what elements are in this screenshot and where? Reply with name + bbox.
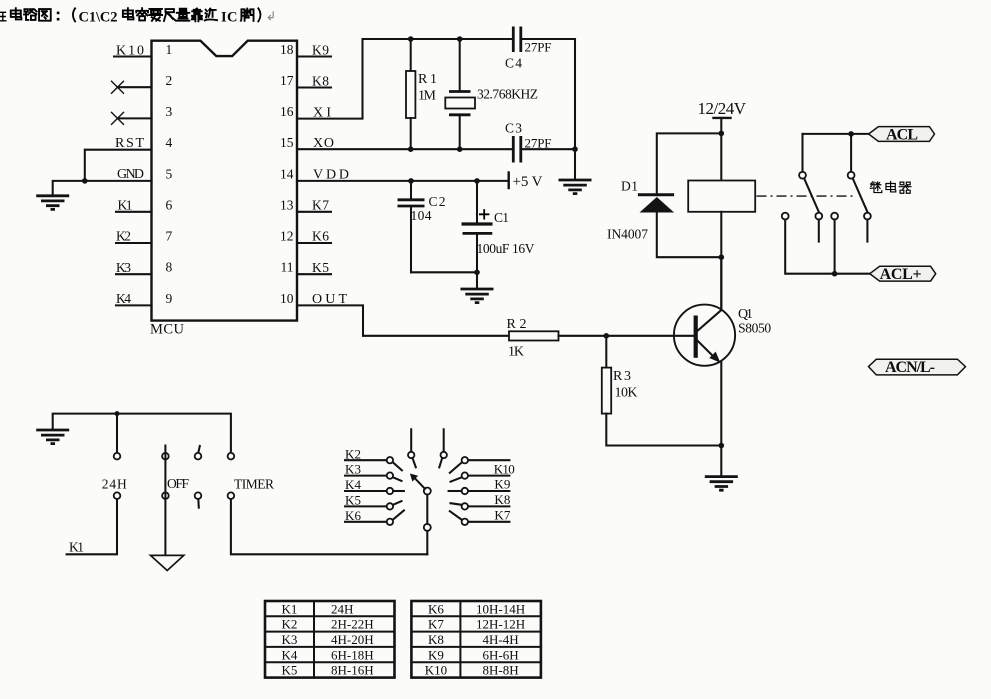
- wire to diode branch: [657, 133, 722, 194]
- svg-text:10H-14H: 10H-14H: [476, 601, 525, 616]
- svg-text:+5 V: +5 V: [513, 174, 543, 190]
- svg-text:K4: K4: [282, 647, 298, 662]
- ground (oscillator rail): [559, 180, 592, 194]
- svg-text:R3: R3: [613, 369, 631, 384]
- junction R1 bottom on XO wire: [408, 146, 414, 152]
- svg-text:K9: K9: [428, 647, 444, 662]
- svg-text:K10: K10: [116, 44, 144, 59]
- svg-text:9: 9: [166, 291, 173, 306]
- switch TIMER column: [228, 453, 428, 554]
- fullwidth close paren: [258, 8, 261, 23]
- switch OFF column (wiper into arrow): [162, 446, 169, 556]
- paragraph mark: [268, 11, 273, 20]
- contact arm right: [848, 134, 868, 212]
- svg-text:GND: GND: [117, 167, 144, 182]
- svg-text:K1: K1: [118, 198, 133, 213]
- junction 24H column: [115, 411, 120, 416]
- svg-text:5: 5: [166, 166, 173, 181]
- wire right rail of oscillator: [574, 39, 576, 180]
- svg-text:XO: XO: [313, 136, 334, 151]
- left contacts K2-K6: [345, 457, 402, 470]
- svg-text:K1: K1: [282, 601, 298, 616]
- svg-text:K6: K6: [345, 508, 362, 523]
- pin numbers right 18-10: [280, 42, 294, 306]
- switch 24H column: [67, 414, 121, 555]
- label 继电器: [870, 182, 911, 194]
- svg-text:16: 16: [280, 104, 294, 119]
- svg-text:18: 18: [280, 42, 294, 57]
- node K3 pin8 wire: [116, 273, 152, 275]
- node K8 pin17 wire: [297, 86, 331, 88]
- svg-text:K5: K5: [312, 260, 329, 275]
- bottom contact circles: [782, 213, 871, 220]
- svg-text:6H-18H: 6H-18H: [331, 647, 374, 662]
- svg-text:100uF 16V: 100uF 16V: [477, 241, 535, 256]
- wire to ground: [476, 272, 478, 289]
- svg-text:3: 3: [166, 104, 173, 119]
- svg-text:K10: K10: [494, 461, 515, 476]
- node K4 pin9 wire: [116, 304, 152, 306]
- fullwidth open paren: [73, 8, 76, 23]
- svg-text:C1: C1: [494, 210, 509, 225]
- table left K1-K5: [265, 601, 395, 678]
- ground (C1): [461, 289, 494, 303]
- svg-text:8: 8: [166, 260, 173, 275]
- wire C2 bottom to C1 bottom: [411, 271, 477, 273]
- wire collector: [720, 257, 722, 310]
- svg-text:C1\C2: C1\C2: [79, 9, 118, 25]
- svg-text:RST: RST: [115, 136, 144, 151]
- svg-text:4H-20H: 4H-20H: [331, 632, 374, 647]
- open arrow terminator: [151, 555, 184, 570]
- svg-text:S8050: S8050: [738, 321, 771, 336]
- node GND pin5 wire: [53, 181, 152, 196]
- wire ground rail: [53, 414, 231, 453]
- transistor Q1 S8050: [674, 305, 735, 366]
- svg-text:K10: K10: [425, 663, 447, 678]
- svg-text:ACL: ACL: [886, 126, 918, 143]
- svg-text:OFF: OFF: [167, 476, 189, 491]
- svg-text:K8: K8: [312, 74, 329, 89]
- capacitor C1 100uF 16V (electrolytic, + mark): [462, 181, 493, 272]
- svg-text:C3: C3: [505, 121, 522, 136]
- resistor R2 1K: [509, 331, 606, 340]
- svg-text:K7: K7: [494, 508, 511, 523]
- node K2 pin7 wire: [116, 242, 152, 244]
- node K1 pin6 wire: [116, 211, 152, 213]
- svg-text:OUT: OUT: [312, 292, 347, 307]
- svg-text:D1: D1: [621, 179, 638, 194]
- svg-text:K2: K2: [345, 446, 361, 461]
- svg-text:K8: K8: [494, 492, 510, 507]
- node K10 pin1 wire: [114, 55, 152, 57]
- wire top rail: [363, 38, 514, 40]
- svg-text:1M: 1M: [418, 89, 437, 104]
- svg-text:27PF: 27PF: [525, 136, 552, 151]
- dashed link relay to contacts: [757, 195, 857, 197]
- svg-text:11: 11: [281, 260, 294, 275]
- junction emitter/R3: [719, 443, 725, 449]
- svg-text:13: 13: [280, 197, 294, 212]
- pin2 wire with X (no connect): [111, 81, 152, 94]
- right contacts (top unlabeled, K10-K7): [450, 457, 510, 473]
- wire to ACL+: [785, 220, 870, 274]
- contact stubs: [818, 220, 820, 242]
- svg-text:K2: K2: [282, 617, 298, 632]
- junction R1 top: [408, 36, 414, 42]
- svg-text:12: 12: [280, 229, 294, 244]
- svg-text:C4: C4: [505, 56, 522, 71]
- svg-text:TIMER: TIMER: [234, 477, 274, 492]
- node K9 pin18 wire: [297, 55, 331, 57]
- wire emitter down: [720, 362, 722, 477]
- svg-text:12/24V: 12/24V: [698, 99, 747, 118]
- node OUT pin10 wire: [297, 305, 509, 335]
- table right K6-K10: [411, 601, 541, 678]
- junction ACL+ wire: [832, 271, 838, 277]
- svg-text:2H-22H: 2H-22H: [331, 617, 374, 632]
- svg-text:10K: 10K: [615, 386, 638, 401]
- svg-text:24H: 24H: [102, 477, 127, 492]
- svg-text:8H-8H: 8H-8H: [483, 663, 519, 678]
- diode D1 IN4007 (cathode bar + triangle): [638, 195, 721, 258]
- svg-text:K3: K3: [282, 632, 298, 647]
- op-amp? no: MCU body outline with notch: [152, 41, 298, 321]
- svg-text:K7: K7: [428, 617, 444, 632]
- contact arm left: [799, 134, 819, 212]
- node K5 pin11 wire: [297, 273, 331, 275]
- wire ACL rail: [803, 133, 869, 135]
- title CJK: 电路图: [11, 8, 51, 21]
- resistor R3 10K: [602, 336, 722, 446]
- svg-text:10: 10: [280, 291, 294, 306]
- pin3 wire with X (no connect): [111, 112, 152, 125]
- fullwidth colon: [57, 12, 60, 21]
- junction RST/GND: [82, 178, 88, 184]
- svg-text:K1: K1: [69, 540, 84, 555]
- svg-text:104: 104: [411, 208, 432, 223]
- flag ACL: [869, 126, 935, 143]
- ground (selector rail): [36, 430, 69, 444]
- svg-text:7: 7: [166, 229, 173, 244]
- junction C2 top: [408, 178, 414, 184]
- svg-text:12H-12H: 12H-12H: [476, 617, 525, 632]
- svg-text:8H-16H: 8H-16H: [331, 663, 374, 678]
- svg-text:K8: K8: [428, 632, 444, 647]
- svg-text:K9: K9: [312, 43, 329, 58]
- junction base/R3: [604, 333, 610, 339]
- junction ACL wire: [848, 131, 854, 137]
- svg-text:6: 6: [166, 197, 173, 212]
- svg-text:K6: K6: [428, 601, 444, 616]
- +5V terminal bar: [508, 173, 510, 189]
- wire coil bottom to Q1 collector: [720, 257, 722, 307]
- node K6 pin12 wire: [297, 242, 331, 244]
- ground (chip GND): [36, 196, 69, 210]
- title CJK: 脚: [241, 9, 254, 21]
- svg-text:1K: 1K: [508, 345, 524, 360]
- svg-text:6H-6H: 6H-6H: [483, 647, 519, 662]
- svg-text:K6: K6: [312, 229, 329, 244]
- junction C1 top: [474, 178, 480, 184]
- svg-text:C2: C2: [429, 194, 446, 209]
- junction C3 right on rail: [572, 146, 578, 152]
- node K7 pin13 wire: [297, 211, 331, 213]
- svg-text:IN4007: IN4007: [607, 227, 648, 242]
- wiper arrow: [410, 474, 425, 489]
- ground (Q1 emitter): [705, 477, 738, 491]
- svg-text:MCU: MCU: [150, 322, 185, 338]
- svg-text:K7: K7: [312, 198, 329, 213]
- capacitor C4 27PF: [513, 27, 575, 53]
- svg-text:VDD: VDD: [313, 167, 349, 182]
- svg-text:K3: K3: [345, 462, 361, 477]
- svg-text:K3: K3: [116, 260, 131, 275]
- relay coil box: [688, 133, 755, 257]
- wiper common: [424, 488, 431, 555]
- resistor R1: [406, 39, 415, 149]
- junction crystal bottom on XO wire: [457, 146, 463, 152]
- svg-text:K2: K2: [116, 229, 131, 244]
- svg-text:17: 17: [280, 73, 294, 88]
- svg-text:32.768KHZ: 32.768KHZ: [477, 87, 538, 102]
- svg-text:27PF: 27PF: [525, 40, 552, 55]
- junction crystal top: [457, 36, 463, 42]
- crystal Y1 32.768KHZ: [445, 39, 475, 149]
- partial leading character (cut off at left edge): [0, 12, 6, 20]
- junction diode anode / coil bottom: [719, 254, 725, 260]
- svg-text:ACL+: ACL+: [880, 266, 922, 283]
- svg-text:4H-4H: 4H-4H: [483, 632, 519, 647]
- svg-text:15: 15: [280, 135, 294, 150]
- svg-text:ACN/L-: ACN/L-: [885, 359, 935, 376]
- title CJK: 电容要尽量靠近: [123, 8, 217, 21]
- svg-text:24H: 24H: [331, 601, 353, 616]
- unconnected middle contacts: [195, 446, 202, 460]
- svg-text:4: 4: [166, 135, 173, 150]
- node VDD pin14 wire: [297, 180, 509, 182]
- svg-text:XI: XI: [313, 105, 331, 120]
- wire base: [606, 335, 693, 337]
- svg-text:K4: K4: [116, 291, 131, 306]
- svg-text:K5: K5: [345, 493, 361, 508]
- node XI pin16 wire to crystal rail: [297, 39, 363, 119]
- top stub contacts: [408, 429, 416, 467]
- flag ACL+: [870, 266, 936, 283]
- node RST pin4 wire: [85, 150, 152, 181]
- pin numbers left 1-9: [166, 42, 173, 306]
- junction 12/24V: [719, 131, 725, 137]
- svg-text:1: 1: [166, 42, 173, 57]
- capacitor C2 104: [398, 181, 425, 272]
- svg-text:IC: IC: [221, 9, 238, 25]
- svg-text:K5: K5: [282, 663, 298, 678]
- capacitor C3 27PF: [513, 136, 575, 163]
- svg-text:K4: K4: [345, 477, 362, 492]
- node XO pin15 wire: [297, 148, 513, 150]
- svg-text:14: 14: [280, 166, 294, 181]
- flag ACN/L-: [869, 359, 966, 376]
- junction C1 bottom: [474, 270, 480, 276]
- svg-text:K9: K9: [494, 477, 510, 492]
- svg-text:2: 2: [166, 73, 173, 88]
